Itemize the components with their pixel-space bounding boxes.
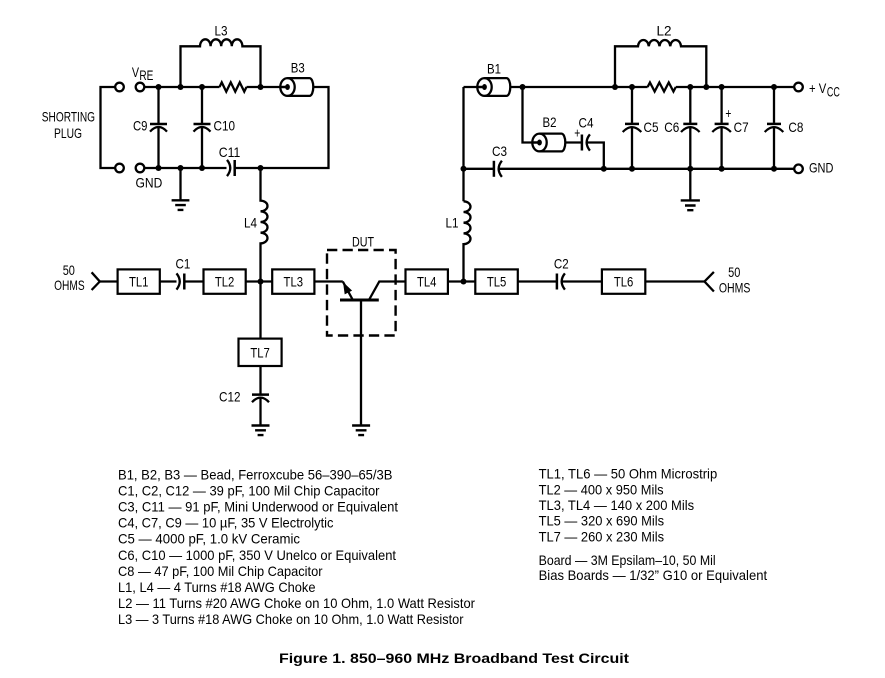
label 50 OHMS right — [719, 264, 751, 296]
node L2 left — [612, 84, 618, 90]
transmission line TL3 — [272, 269, 314, 293]
svg-text:50: 50 — [728, 264, 740, 280]
svg-text:L1: L1 — [446, 215, 459, 231]
node L1 bottom junction — [461, 279, 467, 285]
label +VCC — [809, 80, 840, 100]
bead B3 — [280, 78, 313, 96]
wire into B1 — [464, 86, 484, 88]
inductor L2 — [615, 40, 706, 87]
node C7 top — [719, 84, 725, 90]
capacitor C7 — [712, 87, 731, 169]
svg-text:L3 — 3 Turns #18 AWG Choke on: L3 — 3 Turns #18 AWG Choke on 10 Ohm, 1.… — [118, 611, 464, 627]
node C5 top — [629, 84, 635, 90]
node C6 top — [687, 84, 693, 90]
wire TL6 to output — [645, 280, 704, 282]
capacitor C4 — [582, 134, 590, 150]
svg-text:L3: L3 — [215, 23, 228, 39]
wire top rail left — [144, 86, 219, 88]
svg-text:TL3: TL3 — [284, 273, 304, 289]
svg-text:C11: C11 — [219, 144, 241, 160]
node C9 bottom — [156, 165, 162, 171]
wire TL4 to TL5 — [448, 280, 475, 282]
svg-text:C10: C10 — [214, 118, 236, 134]
label VRE — [132, 64, 154, 83]
shorting plug bracket wire — [101, 87, 116, 168]
svg-text:B2: B2 — [543, 114, 557, 130]
shorting plug left top circle — [115, 83, 124, 92]
svg-text:L2 — 11 Turns #20 AWG Choke on: L2 — 11 Turns #20 AWG Choke on 10 Ohm, 1… — [118, 595, 475, 611]
svg-text:B1: B1 — [487, 61, 501, 77]
svg-text:GND: GND — [809, 160, 833, 176]
node L3 right — [258, 84, 264, 90]
output connector chevron — [705, 272, 714, 292]
terminal VRE circle — [136, 83, 145, 92]
svg-text:TL1: TL1 — [129, 273, 149, 289]
svg-text:GND: GND — [136, 175, 163, 191]
transistor Q1 base bar — [340, 299, 379, 302]
svg-text:RE: RE — [139, 67, 153, 83]
svg-text:C8: C8 — [788, 119, 803, 135]
svg-text:C5: C5 — [644, 119, 659, 135]
svg-text:B1, B2, B3 — Bead, Ferroxcube: B1, B2, B3 — Bead, Ferroxcube 56–390–65/… — [118, 466, 393, 482]
wire bottom rail right — [499, 168, 794, 170]
svg-text:CC: CC — [827, 84, 840, 100]
svg-text:TL3, TL4 — 140 x 200 Mils: TL3, TL4 — 140 x 200 Mils — [539, 497, 695, 513]
node B2 branch — [520, 84, 526, 90]
svg-text:SHORTING: SHORTING — [42, 109, 95, 125]
capacitor C9 — [150, 87, 167, 168]
wire TL7 to C12 — [259, 366, 261, 394]
svg-text:B3: B3 — [291, 60, 305, 76]
svg-text:+: + — [725, 105, 731, 121]
wire C4 to bottom rail — [587, 143, 604, 169]
svg-text:TL1, TL6 — 50 Ohm Microstrip: TL1, TL6 — 50 Ohm Microstrip — [539, 466, 718, 482]
capacitor C2 — [557, 273, 565, 289]
capacitor C10 — [194, 87, 211, 168]
node C10 top — [199, 84, 205, 90]
transmission line TL5 — [475, 269, 518, 293]
wire C2 to TL6 — [562, 280, 602, 282]
terminal GND right circle — [794, 165, 803, 174]
capacitor C1 — [177, 273, 185, 289]
node C5 bottom — [629, 166, 635, 172]
wire junction to TL7 — [259, 282, 261, 339]
svg-text:L4: L4 — [244, 215, 257, 231]
node C9 top — [156, 84, 162, 90]
DUT dashed box — [327, 250, 396, 336]
transmission line TL2 — [204, 269, 246, 293]
wire bottom rail left — [144, 167, 226, 169]
parts list left column — [118, 466, 475, 627]
capacitor C11 — [227, 160, 235, 176]
transmission line TL6 — [602, 269, 645, 293]
bead B1 — [477, 78, 510, 96]
svg-text:C7: C7 — [734, 119, 749, 135]
svg-text:DUT: DUT — [352, 234, 374, 250]
wire B3 to right corner — [235, 87, 329, 168]
svg-text:Figure 1. 850–960 MHz Broadban: Figure 1. 850–960 MHz Broadband Test Cir… — [279, 650, 629, 666]
ground DUT base — [352, 426, 370, 436]
capacitor C3 — [494, 161, 502, 177]
svg-text:C6, C10 — 1000 pF, 350 V Unelc: C6, C10 — 1000 pF, 350 V Unelco or Equiv… — [118, 547, 396, 563]
svg-text:TL2: TL2 — [215, 273, 235, 289]
svg-text:L2: L2 — [657, 23, 672, 39]
wire resistor to B3 — [247, 86, 287, 88]
wire B2 branch — [523, 87, 539, 143]
svg-text:TL7: TL7 — [250, 344, 270, 360]
node C4 drop — [601, 166, 607, 172]
transmission line TL7 — [239, 339, 282, 366]
shorting plug left bottom circle — [115, 164, 124, 173]
terminal GND circle — [136, 164, 145, 173]
transistor Q1 collector lead — [370, 282, 406, 300]
node ground stem right — [687, 166, 693, 172]
capacitor C5 — [623, 87, 642, 169]
svg-text:C6: C6 — [664, 119, 679, 135]
svg-text:C12: C12 — [219, 389, 241, 405]
svg-text:C8 — 47 pF, 100 Mil Chip Capac: C8 — 47 pF, 100 Mil Chip Capacitor — [118, 563, 323, 579]
transistor Q1 base stem — [360, 300, 362, 425]
svg-text:OHMS: OHMS — [719, 280, 751, 296]
node C10 bottom — [199, 165, 205, 171]
transmission line TL4 — [406, 269, 448, 293]
svg-text:50: 50 — [63, 262, 75, 278]
wire C1 to TL2 — [184, 280, 203, 282]
svg-text:C5 — 4000 pF, 1.0 kV Ceramic: C5 — 4000 pF, 1.0 kV Ceramic — [118, 531, 300, 547]
svg-text:C1: C1 — [176, 255, 191, 271]
wire bottom rail to C3 — [464, 168, 494, 170]
svg-text:C4, C7, C9 — 10 µF, 35 V Elect: C4, C7, C9 — 10 µF, 35 V Electrolytic — [118, 515, 334, 531]
svg-text:+ V: + V — [809, 80, 827, 96]
transistor Q1 emitter lead — [343, 282, 353, 300]
parts list right column — [539, 466, 768, 583]
wire TL1 to C1 — [160, 280, 177, 282]
wire TL3 to DUT — [314, 280, 342, 282]
bead B2 — [532, 134, 565, 152]
node ground stem — [178, 165, 184, 171]
inductor L4 — [261, 168, 268, 282]
svg-text:Board — 3M Epsilam–10, 50 Mil: Board — 3M Epsilam–10, 50 Mil — [539, 552, 716, 568]
svg-text:Bias Boards — 1/32” G10 or Equ: Bias Boards — 1/32” G10 or Equivalent — [539, 567, 768, 583]
svg-text:PLUG: PLUG — [54, 125, 82, 141]
svg-text:TL5 — 320 x 690 Mils: TL5 — 320 x 690 Mils — [539, 513, 665, 529]
svg-text:TL7 — 260 x 230 Mils: TL7 — 260 x 230 Mils — [539, 528, 665, 544]
transistor Q1 emitter arrow — [343, 282, 352, 294]
inductor L3 — [181, 39, 261, 87]
wire VCC top rail — [510, 86, 794, 88]
ground C12 — [252, 426, 270, 436]
svg-text:C3, C11 — 91 pF, Mini Underwoo: C3, C11 — 91 pF, Mini Underwood or Equiv… — [118, 499, 398, 515]
wire B2 to C4 — [565, 141, 582, 143]
svg-text:C3: C3 — [492, 143, 507, 159]
svg-text:TL5: TL5 — [487, 273, 507, 289]
wire TL5 to C2 — [518, 280, 557, 282]
node C8 top — [771, 84, 777, 90]
wire input to TL1 — [100, 280, 118, 282]
node L4 top — [258, 165, 264, 171]
node C3 rail tee — [461, 166, 467, 172]
node L2 right — [703, 84, 709, 90]
terminal VCC circle — [794, 83, 803, 92]
svg-text:L1, L4 — 4 Turns #18 AWG Choke: L1, L4 — 4 Turns #18 AWG Choke — [118, 579, 316, 595]
svg-text:OHMS: OHMS — [54, 277, 85, 293]
input connector chevron — [92, 272, 100, 290]
capacitor C6 — [681, 87, 700, 169]
svg-text:TL4: TL4 — [417, 273, 437, 289]
capacitor C12 — [252, 395, 269, 426]
resistor on VRE rail — [220, 82, 247, 91]
svg-text:C2: C2 — [554, 256, 569, 272]
transmission line TL1 — [118, 269, 160, 293]
label 50 OHMS left — [54, 262, 85, 293]
svg-text:TL2 — 400 x 950 Mils: TL2 — 400 x 950 Mils — [539, 481, 664, 497]
ground left bias — [172, 168, 190, 210]
svg-text:C9: C9 — [133, 118, 148, 134]
node C7 bottom — [719, 166, 725, 172]
svg-text:C4: C4 — [579, 115, 594, 131]
wire TL2 to TL3 — [246, 280, 273, 282]
inductor L1 — [464, 201, 471, 281]
ground VCC network — [681, 169, 700, 210]
node C8 bottom — [771, 166, 777, 172]
node L4 bottom junction — [258, 279, 264, 285]
resistor on VCC rail — [648, 83, 676, 92]
capacitor C8 — [765, 87, 784, 169]
label SHORTING PLUG — [42, 109, 95, 141]
svg-text:C1, C2, C12 — 39 pF, 100 Mil C: C1, C2, C12 — 39 pF, 100 Mil Chip Capaci… — [118, 482, 380, 498]
wire VCC left vertical — [462, 87, 464, 201]
bead B1 dot — [477, 86, 484, 88]
node L3 left — [178, 84, 184, 90]
svg-text:TL6: TL6 — [614, 273, 634, 289]
